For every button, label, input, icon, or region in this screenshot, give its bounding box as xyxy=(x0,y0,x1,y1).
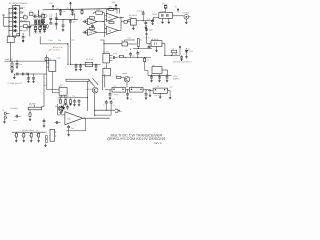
diode D10 varactor xyxy=(46,24,49,28)
text c47 row xyxy=(57,101,63,103)
wire fb U4A xyxy=(107,9,118,14)
text rit lbl xyxy=(20,64,23,66)
resistor R19 xyxy=(64,98,66,104)
text ant lbl xyxy=(170,86,173,89)
resistor R2 xyxy=(20,25,28,28)
pin U1 OSC xyxy=(20,6,25,9)
ground Y1 xyxy=(34,30,37,32)
svg-text:+5: +5 xyxy=(175,6,177,9)
wire D3 anode xyxy=(8,17,10,18)
text keyed lbl xyxy=(88,83,93,85)
text pa r1 xyxy=(58,98,61,100)
svg-text:10K: 10K xyxy=(36,130,39,132)
svg-text:U6 5351: U6 5351 xyxy=(103,51,110,54)
svg-text:PB: PB xyxy=(16,17,18,19)
resistor R16 xyxy=(172,47,177,55)
svg-text:L1: L1 xyxy=(131,85,133,88)
wire red arrow xyxy=(49,49,53,51)
resistor R21 xyxy=(117,76,121,78)
resistor R1 xyxy=(20,13,28,19)
wire U1 top xyxy=(15,5,17,6)
wire rail end drop xyxy=(119,9,121,14)
capacitor C5 xyxy=(71,9,76,15)
svg-text:R4: R4 xyxy=(41,12,43,15)
wire U2 out rail xyxy=(136,20,153,21)
capacitor C47 xyxy=(61,105,64,113)
svg-text:.047: .047 xyxy=(73,21,76,24)
text reg in xyxy=(143,37,149,40)
wire c38 drop xyxy=(105,106,107,111)
ground FL1 a xyxy=(161,18,164,23)
capacitor C2 xyxy=(33,15,38,18)
svg-text:PHONES: PHONES xyxy=(10,107,18,110)
capacitor C29 xyxy=(180,55,183,58)
svg-text:+5V: +5V xyxy=(49,2,53,5)
wire led rail xyxy=(164,55,180,56)
svg-text:4.0 MHz: 4.0 MHz xyxy=(160,11,166,13)
text key rs xyxy=(14,134,38,137)
power +5V arrow 2 xyxy=(112,1,117,9)
svg-text:U10: U10 xyxy=(67,117,71,120)
IC U5 box xyxy=(49,57,56,71)
resistor R9 xyxy=(109,6,114,11)
text ptune label xyxy=(8,82,23,85)
power arrow led xyxy=(179,46,181,56)
text u1 bottom lbl xyxy=(13,37,16,39)
wire lpf line xyxy=(105,89,151,91)
wire q2 down xyxy=(94,93,96,115)
diode D1 xyxy=(11,7,17,10)
header J1 xyxy=(35,20,37,24)
svg-text:R1: R1 xyxy=(24,13,26,16)
wire lpf jog xyxy=(150,89,152,92)
pin u6 right xyxy=(109,56,112,61)
capacitor C48 xyxy=(66,105,69,111)
text mixer row xyxy=(137,10,150,21)
resistor R6 xyxy=(89,17,94,19)
text u7 lbl xyxy=(104,67,106,69)
resistor R26 xyxy=(37,132,40,142)
resistor R15 xyxy=(144,57,148,75)
capacitor C32 xyxy=(166,75,169,82)
wire vert pa xyxy=(87,81,89,111)
wire t1 to l2 xyxy=(128,43,138,45)
text q4 lbl xyxy=(122,72,127,75)
resistor R14 xyxy=(117,56,125,58)
wire k1 stubs xyxy=(52,74,59,93)
wire bus down b xyxy=(104,75,106,88)
text title line1 xyxy=(110,133,162,137)
power VCC arrow xyxy=(70,2,72,10)
text j7 plus xyxy=(121,111,122,113)
svg-text:U2 SA612: U2 SA612 xyxy=(129,14,137,17)
capacitor C45 xyxy=(15,115,21,118)
ground C20 arrow xyxy=(22,40,24,42)
svg-text:X2 12.00: X2 12.00 xyxy=(86,58,93,61)
text pa r3 xyxy=(72,96,75,98)
wire U3A out xyxy=(97,21,105,22)
wire xtal feed xyxy=(38,10,39,17)
ground U2 xyxy=(132,25,135,30)
capacitor C44 xyxy=(32,74,35,83)
svg-text:39p: 39p xyxy=(58,39,61,42)
text c38 c39 xyxy=(107,102,109,104)
svg-text:10uF: 10uF xyxy=(14,120,17,122)
wire U3B out xyxy=(97,31,105,33)
svg-text:U7: U7 xyxy=(104,67,106,69)
capacitor C3 xyxy=(34,13,42,18)
wire xtal rail xyxy=(31,24,47,26)
node A bubble xyxy=(42,14,47,17)
wire 386 out xyxy=(83,118,110,119)
resistor R20 xyxy=(69,98,71,104)
pin U11 ticks xyxy=(55,132,57,136)
diode LED1 xyxy=(185,48,193,56)
capacitor C35 xyxy=(109,90,112,99)
resistor R12 xyxy=(11,61,13,66)
wire sw2 down xyxy=(10,42,12,61)
filter box FL1 xyxy=(159,13,173,19)
text lm386 pwr xyxy=(63,102,75,110)
pin U1 KEY xyxy=(20,29,28,32)
diode D8 xyxy=(62,105,64,110)
relay K1 box xyxy=(59,85,67,95)
svg-text:.01: .01 xyxy=(107,102,109,104)
wire fb U3A xyxy=(94,13,105,14)
wire bus left xyxy=(67,44,69,65)
wire fl1 out xyxy=(173,15,184,17)
wire u6 in xyxy=(100,40,104,53)
capacitor C43 xyxy=(27,74,30,83)
svg-text:4.7K: 4.7K xyxy=(65,98,68,100)
resistor R18 xyxy=(59,98,61,104)
text af gain xyxy=(30,102,36,105)
switch SW3 box xyxy=(17,34,20,36)
wire 12v rail xyxy=(148,74,172,76)
svg-text:T2: T2 xyxy=(114,85,116,88)
capacitor C11 xyxy=(69,20,76,24)
resistor R11 xyxy=(121,20,131,23)
text xtal freq xyxy=(33,32,42,35)
diode D7 xyxy=(27,25,31,28)
diode D6 xyxy=(11,29,17,32)
text t2 val xyxy=(114,93,118,96)
resistor R3 xyxy=(81,9,83,15)
wire af col b xyxy=(47,74,59,90)
capacitor C27 xyxy=(136,51,139,59)
svg-text:.1: .1 xyxy=(53,23,54,26)
svg-text:RX ANT: RX ANT xyxy=(183,12,190,15)
capacitor C17 xyxy=(151,19,154,25)
capacitor C14 xyxy=(91,24,94,28)
ground C29 xyxy=(180,58,182,61)
wire D6 anode xyxy=(8,30,10,31)
text title line2 xyxy=(107,137,166,141)
wire tune line xyxy=(40,43,68,44)
wire af feed xyxy=(71,13,75,20)
crystal Y1 xyxy=(34,25,37,30)
svg-text:10u: 10u xyxy=(62,10,65,13)
ground J4 xyxy=(185,19,188,24)
resistor R10 xyxy=(109,21,114,23)
text c45 lbl xyxy=(14,120,17,122)
ground LED1 xyxy=(185,56,188,58)
wire mid rail xyxy=(5,61,48,62)
text key lbl2 xyxy=(36,130,39,132)
capacitor C15 xyxy=(141,10,145,20)
svg-text:CLK0: CLK0 xyxy=(113,53,117,55)
IC U9 box xyxy=(152,64,162,74)
wire k1 bottom xyxy=(62,95,65,97)
svg-text:P-TUNE 10K POT: P-TUNE 10K POT xyxy=(8,82,23,85)
text rx stub xyxy=(194,17,195,19)
capacitor C26 xyxy=(129,49,132,58)
text fl1 val xyxy=(160,11,166,13)
wire fl1 jog xyxy=(154,18,159,21)
svg-text:.1: .1 xyxy=(140,51,141,53)
wire osc rail xyxy=(67,64,100,65)
svg-text:49.9: 49.9 xyxy=(72,96,75,98)
IC U6 box xyxy=(103,51,110,63)
wire band bus xyxy=(8,9,10,34)
svg-text:GND: GND xyxy=(13,37,16,39)
wire osc top rail xyxy=(133,48,152,49)
wire af row xyxy=(14,73,47,74)
text k1 pins xyxy=(60,84,64,87)
wire u8 right xyxy=(162,44,165,56)
wire diag 1 xyxy=(89,80,95,87)
crystal Y3 xyxy=(43,25,46,30)
svg-text:PB: PB xyxy=(16,26,18,28)
transformer T2 xyxy=(112,85,126,92)
resistor R5 xyxy=(41,19,44,22)
wire reg feed xyxy=(146,25,148,44)
capacitor C49 xyxy=(67,125,74,136)
pin U1 4 xyxy=(20,19,30,22)
svg-text:TUNE POT: TUNE POT xyxy=(5,58,15,61)
wire r5 down xyxy=(42,23,44,25)
svg-text:+ TX +5: + TX +5 xyxy=(143,37,149,40)
text q3 label xyxy=(55,105,57,108)
trimmer capacitor C1 xyxy=(29,10,33,16)
capacitor C4 xyxy=(59,9,65,15)
crystal Y2 xyxy=(38,25,41,30)
capacitor C31 xyxy=(158,75,161,82)
wire U1 right col xyxy=(29,22,31,37)
svg-text:OSC1: OSC1 xyxy=(20,6,25,9)
capacitor C37 xyxy=(145,89,148,99)
capacitor C23 xyxy=(79,64,82,71)
capacitor C30 xyxy=(150,75,153,82)
wire c39 drop xyxy=(110,106,112,112)
svg-text:C2 C3: C2 C3 xyxy=(34,13,39,16)
svg-text:SUPPLY: SUPPLY xyxy=(173,77,181,80)
wire bus down a xyxy=(102,75,104,91)
ground pa row xyxy=(60,103,72,114)
wire U1 bottom xyxy=(15,36,17,38)
svg-text:U5: U5 xyxy=(49,57,51,60)
text r net labels xyxy=(49,13,53,18)
resistor R24 xyxy=(23,132,26,142)
text clk2 lbl xyxy=(132,56,136,58)
svg-text:.1 10u: .1 10u xyxy=(63,102,67,104)
capacitor C12 xyxy=(83,20,88,23)
text lpf vals xyxy=(112,97,132,100)
transformer T1 xyxy=(122,42,128,46)
switch SW2 box xyxy=(7,34,14,42)
wire D1 anode xyxy=(8,8,10,9)
resistor R23 xyxy=(15,132,18,142)
wire t3 mid xyxy=(159,93,162,98)
wire 386 fb xyxy=(66,118,85,131)
svg-text:PB: PB xyxy=(16,8,18,10)
text xtal bank labels xyxy=(34,18,41,21)
svg-text:C1: C1 xyxy=(29,10,31,13)
capacitor C9 xyxy=(55,24,58,25)
op-amp U3A xyxy=(86,18,97,24)
svg-text:+5V: +5V xyxy=(112,1,116,4)
wire U4B out xyxy=(118,17,121,30)
svg-text:L2: L2 xyxy=(140,39,142,42)
switch SW1 xyxy=(2,15,5,17)
capacitor C33 xyxy=(73,99,76,106)
wire u8 left xyxy=(147,43,152,45)
resistor R22 xyxy=(29,110,32,121)
capacitor C28 xyxy=(148,44,151,49)
capacitor C36 xyxy=(126,89,129,99)
header J3 xyxy=(42,20,44,24)
IC U1 box xyxy=(13,6,20,36)
IC U11 box xyxy=(50,129,55,141)
svg-text:Q4: Q4 xyxy=(131,76,133,79)
wire bus right xyxy=(69,22,71,64)
svg-text:PB: PB xyxy=(16,13,18,15)
wire u9 right xyxy=(162,70,168,75)
text title rev xyxy=(154,142,162,145)
wire diag 2 xyxy=(92,78,98,85)
wire af col a xyxy=(42,74,44,107)
svg-text:.1: .1 xyxy=(74,10,75,13)
wire D2 anode xyxy=(8,12,10,13)
wire t1 in xyxy=(103,43,122,44)
resistor R13 xyxy=(11,67,14,73)
capacitor C39 xyxy=(110,100,115,106)
text keyer label xyxy=(22,129,34,132)
wire bank left xyxy=(26,27,28,31)
wire u5 col xyxy=(46,55,48,74)
text c26 lbl xyxy=(126,50,127,52)
svg-text:10K: 10K xyxy=(20,64,23,66)
resistor R4 xyxy=(41,12,45,18)
text jack lbl xyxy=(2,109,4,112)
wire 386 in xyxy=(57,104,65,115)
text tune label xyxy=(5,58,15,61)
IC U8 box xyxy=(151,38,162,47)
capacitor C20 xyxy=(22,33,27,40)
text c4 row xyxy=(57,7,69,10)
wire t3 left xyxy=(148,91,153,97)
capacitor C13 xyxy=(83,31,88,34)
capacitor C50 xyxy=(55,121,61,124)
transistor Q2 xyxy=(86,87,98,93)
resistor R25 xyxy=(30,132,33,142)
wire supply line1 xyxy=(94,110,115,111)
wire interstage bus xyxy=(104,13,106,37)
svg-text:PB00: PB00 xyxy=(20,11,24,14)
text t1 labels xyxy=(121,37,131,43)
svg-text:10K: 10K xyxy=(115,74,118,76)
wire q4 down xyxy=(126,82,128,87)
text opamp nets xyxy=(84,16,85,30)
transistor Q3 xyxy=(58,106,63,111)
transistor Q4 xyxy=(121,76,133,82)
text led note xyxy=(173,61,193,64)
resistor R7 xyxy=(96,9,103,15)
svg-text:~: ~ xyxy=(194,17,195,19)
text rit labels xyxy=(48,39,61,42)
resistor R17 wide xyxy=(66,79,89,81)
svg-text:+: + xyxy=(121,111,122,113)
ground Y2 xyxy=(39,30,42,32)
resistor R8 xyxy=(89,27,94,29)
capacitor C16 xyxy=(144,21,147,29)
capacitor C19 xyxy=(145,29,152,36)
text c28 lbl xyxy=(151,45,153,47)
svg-text:.1: .1 xyxy=(25,36,26,39)
transformer T3 xyxy=(153,85,167,93)
ground varactor xyxy=(40,25,43,27)
text red note xyxy=(53,46,64,51)
jack J5 phones xyxy=(3,112,9,123)
svg-text:OSC: OSC xyxy=(71,40,74,42)
text t3 val xyxy=(155,94,160,97)
inductor L1 xyxy=(130,85,144,92)
text pa r2 xyxy=(65,98,68,100)
capacitor C21 xyxy=(16,60,19,68)
svg-text:QRPGUYS.COM KD1JV DESIGNS: QRPGUYS.COM KD1JV DESIGNS xyxy=(107,137,166,141)
resistor R27 xyxy=(45,58,48,61)
svg-text:KEYED: KEYED xyxy=(88,83,93,85)
ground af left xyxy=(13,74,16,79)
text mixer gnd lbl xyxy=(137,26,138,28)
capacitor C10 xyxy=(62,20,65,32)
svg-text:T3: T3 xyxy=(157,85,159,88)
text osc label xyxy=(86,58,93,61)
wire u5 pins xyxy=(47,63,53,74)
crystal Y5 xyxy=(85,62,92,66)
capacitor C38 xyxy=(103,100,108,106)
wire t3 right xyxy=(168,91,172,99)
capacitor C40 xyxy=(17,73,18,76)
wire U4A out xyxy=(118,17,124,18)
diode D5 xyxy=(11,25,17,28)
wire pa mid rail xyxy=(59,97,89,98)
svg-text:PB: PB xyxy=(16,30,18,32)
text af label xyxy=(44,84,46,87)
op-amp U10 LM386 xyxy=(65,112,83,125)
svg-text:10K: 10K xyxy=(58,98,61,100)
svg-text:.1: .1 xyxy=(126,50,127,52)
wire tune col xyxy=(55,13,57,30)
op-amp U3B xyxy=(86,29,97,35)
wire u4 links xyxy=(105,25,107,29)
svg-text:CLK2: CLK2 xyxy=(132,56,136,58)
capacitor C24 xyxy=(95,64,98,71)
text k1 coil xyxy=(60,91,63,93)
wire bus to switch SW1 xyxy=(4,17,9,26)
diode D4 xyxy=(11,20,17,23)
text fl1 label xyxy=(152,13,157,16)
